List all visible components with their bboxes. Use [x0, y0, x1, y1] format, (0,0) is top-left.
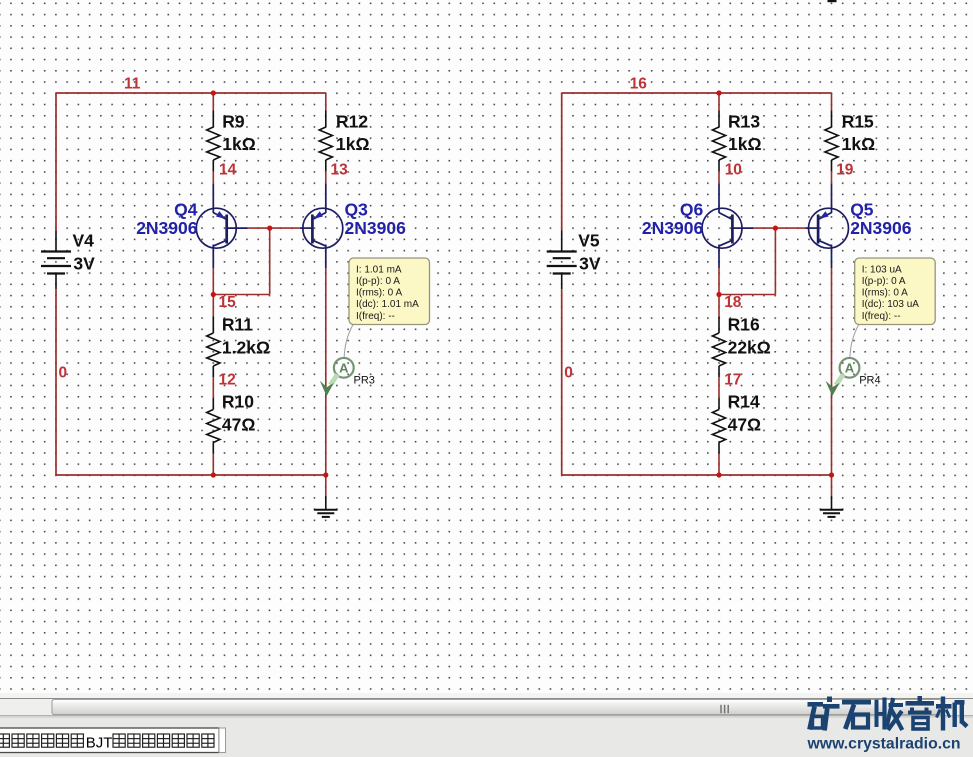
svg-text:R14: R14	[728, 392, 760, 412]
svg-text:R15: R15	[842, 111, 874, 131]
svg-text:18: 18	[724, 294, 742, 311]
svg-text:47Ω: 47Ω	[728, 415, 762, 435]
svg-text:R16: R16	[728, 315, 760, 335]
svg-text:I: 103 uA: I: 103 uA	[862, 264, 902, 275]
svg-text:1kΩ: 1kΩ	[728, 134, 762, 154]
svg-text:1kΩ: 1kΩ	[842, 134, 876, 154]
svg-text:Q6: Q6	[680, 199, 704, 219]
svg-text:I(dc): 1.01 mA: I(dc): 1.01 mA	[356, 299, 419, 310]
svg-text:19: 19	[836, 162, 854, 179]
svg-text:12: 12	[219, 371, 236, 388]
svg-text:R9: R9	[222, 111, 245, 131]
svg-text:I: 1.01 mA: I: 1.01 mA	[356, 264, 402, 275]
svg-text:3V: 3V	[579, 254, 601, 274]
svg-text:2N3906: 2N3906	[642, 218, 704, 238]
svg-text:1kΩ: 1kΩ	[222, 134, 256, 154]
svg-text:13: 13	[331, 162, 349, 179]
svg-text:www.crystalradio.cn: www.crystalradio.cn	[807, 735, 961, 752]
svg-text:R12: R12	[336, 111, 368, 131]
svg-text:I(freq): --: I(freq): --	[356, 311, 395, 322]
svg-text:2N3906: 2N3906	[345, 218, 407, 238]
svg-text:R11: R11	[222, 315, 253, 335]
svg-text:I(rms): 0 A: I(rms): 0 A	[356, 288, 402, 299]
svg-text:BJT: BJT	[86, 734, 113, 751]
svg-text:10: 10	[725, 162, 742, 179]
svg-text:I(rms): 0 A: I(rms): 0 A	[862, 288, 908, 299]
svg-text:1kΩ: 1kΩ	[336, 134, 370, 154]
svg-text:V4: V4	[73, 230, 95, 250]
svg-text:I(freq): --: I(freq): --	[862, 311, 901, 322]
svg-text:Q4: Q4	[174, 199, 198, 219]
svg-text:PR3: PR3	[354, 374, 375, 386]
svg-text:A: A	[339, 360, 349, 375]
svg-text:PR4: PR4	[859, 374, 880, 386]
svg-text:2N3906: 2N3906	[136, 218, 198, 238]
svg-text:11: 11	[124, 76, 141, 93]
svg-text:I(p-p): 0 A: I(p-p): 0 A	[356, 276, 400, 287]
svg-text:Q3: Q3	[345, 199, 369, 219]
svg-text:0: 0	[59, 364, 68, 381]
svg-text:R13: R13	[728, 111, 760, 131]
svg-text:17: 17	[724, 371, 741, 388]
svg-text:0: 0	[564, 364, 573, 381]
svg-text:2N3906: 2N3906	[850, 218, 912, 238]
svg-text:47Ω: 47Ω	[222, 415, 256, 435]
svg-text:15: 15	[219, 294, 237, 311]
svg-text:3V: 3V	[73, 254, 95, 274]
svg-text:I(p-p): 0 A: I(p-p): 0 A	[862, 276, 906, 287]
svg-text:14: 14	[219, 162, 237, 179]
svg-text:Q5: Q5	[850, 199, 874, 219]
svg-text:A: A	[845, 360, 855, 375]
svg-text:1.2kΩ: 1.2kΩ	[222, 338, 270, 358]
svg-text:R10: R10	[222, 392, 254, 412]
svg-text:16: 16	[630, 76, 648, 93]
svg-text:22kΩ: 22kΩ	[728, 338, 771, 358]
svg-text:I(dc): 103 uA: I(dc): 103 uA	[862, 299, 920, 310]
svg-text:V5: V5	[578, 230, 600, 250]
